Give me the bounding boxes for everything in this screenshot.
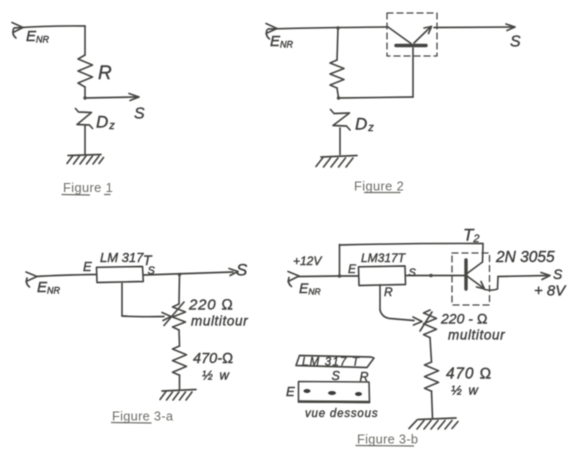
- svg-text:Figure 3-a: Figure 3-a: [112, 409, 174, 424]
- svg-text:Dz: Dz: [96, 113, 115, 133]
- svg-text:E: E: [83, 259, 92, 274]
- svg-text:2N 3055: 2N 3055: [495, 249, 555, 266]
- svg-text:vue dessous: vue dessous: [305, 408, 378, 420]
- svg-text:Dz: Dz: [355, 115, 374, 135]
- svg-text:+ 8V: + 8V: [534, 283, 567, 300]
- svg-text:+12V: +12V: [293, 254, 322, 268]
- svg-text:ENR: ENR: [299, 280, 321, 297]
- svg-text:LM 317 T: LM 317 T: [302, 357, 360, 369]
- svg-text:multitour: multitour: [448, 328, 505, 343]
- svg-text:220 - Ω: 220 - Ω: [440, 311, 488, 327]
- svg-text:S: S: [409, 267, 417, 279]
- svg-text:LM317T: LM317T: [361, 251, 407, 265]
- svg-text:ENR: ENR: [37, 279, 61, 296]
- svg-text:S: S: [332, 369, 341, 383]
- svg-text:T2: T2: [463, 226, 480, 246]
- svg-text:ENR: ENR: [26, 28, 50, 45]
- svg-text:R: R: [98, 63, 112, 84]
- svg-text:S: S: [134, 106, 145, 123]
- svg-text:ENR: ENR: [270, 33, 294, 50]
- svg-text:½ w: ½ w: [202, 368, 230, 383]
- svg-text:470-Ω: 470-Ω: [193, 351, 233, 367]
- svg-text:E: E: [286, 384, 295, 399]
- svg-text:R: R: [360, 370, 369, 384]
- svg-text:½ w: ½ w: [451, 383, 479, 398]
- svg-text:470 Ω: 470 Ω: [446, 366, 492, 383]
- svg-text:Figure 3-b: Figure 3-b: [357, 432, 418, 447]
- svg-text:S: S: [510, 34, 521, 51]
- svg-text:multitour: multitour: [191, 314, 248, 329]
- svg-text:S: S: [236, 261, 248, 280]
- svg-text:Figure 2: Figure 2: [354, 179, 404, 194]
- svg-text:S: S: [148, 265, 156, 277]
- svg-text:S: S: [553, 266, 563, 282]
- svg-text:E: E: [348, 262, 357, 276]
- svg-text:220 Ω: 220 Ω: [188, 297, 234, 314]
- svg-text:Figure 1: Figure 1: [63, 180, 113, 195]
- svg-text:R: R: [384, 285, 393, 299]
- svg-text:LM 317: LM 317: [100, 250, 144, 265]
